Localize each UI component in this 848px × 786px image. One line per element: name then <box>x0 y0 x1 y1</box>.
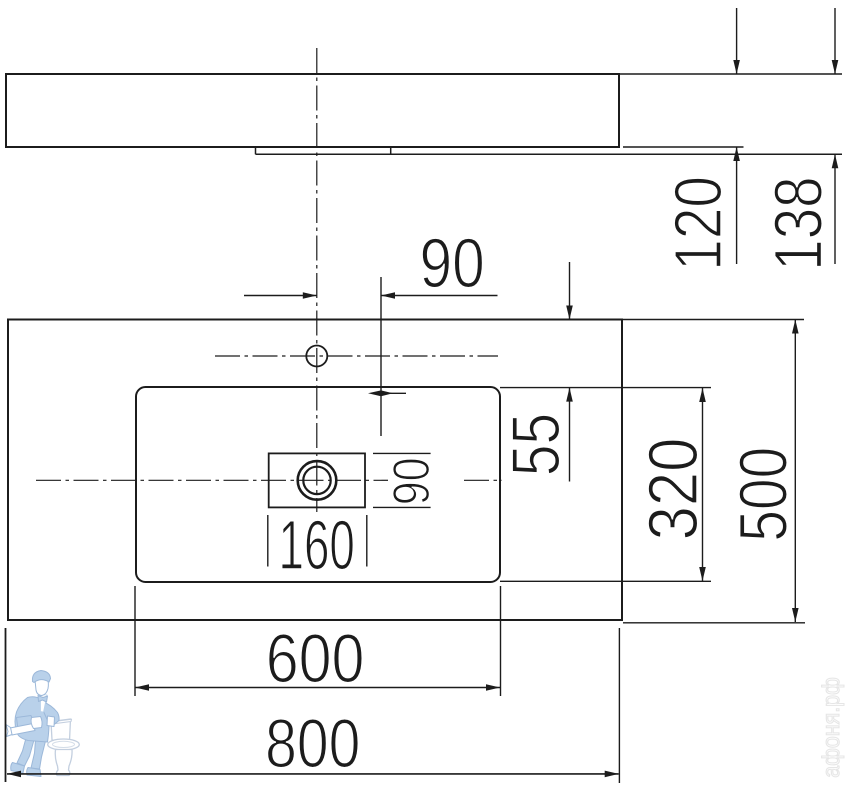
dimension 138 up arrow <box>832 154 839 168</box>
plan top edge extension <box>622 319 804 321</box>
plumber face <box>35 677 48 696</box>
svg-text:120: 120 <box>661 176 736 271</box>
plumber left shoe <box>11 763 25 774</box>
svg-text:800: 800 <box>265 705 360 782</box>
svg-text:90: 90 <box>383 457 441 505</box>
svg-text:афоня.рф: афоня.рф <box>818 677 845 777</box>
basin top extension <box>500 387 711 389</box>
plumber jacket body <box>15 697 49 742</box>
watermark plumber figure <box>6 671 79 777</box>
dimension 120 down arrow <box>733 60 740 74</box>
plumber right shoe <box>27 768 41 777</box>
dimension 800 left extension <box>5 628 7 782</box>
wrench jaw <box>6 725 12 737</box>
dimension 120 up arrow <box>733 147 740 161</box>
dimension 600 line <box>135 687 500 689</box>
faucet hole <box>306 346 327 367</box>
svg-text:138: 138 <box>760 177 836 271</box>
plumber left leg <box>17 738 34 766</box>
drain rect bottom extension <box>373 506 431 508</box>
toilet seat inner <box>53 741 75 747</box>
bow tie <box>38 696 48 703</box>
double arrow mark at basin edge <box>368 390 393 396</box>
plumber left forearm <box>17 716 36 730</box>
lip seam <box>390 147 392 154</box>
toilet tank <box>51 719 71 741</box>
plan view outline <box>8 320 622 621</box>
drain outer circle <box>298 461 337 500</box>
dimension 600 left extension <box>134 586 136 696</box>
side view outline <box>6 74 619 147</box>
dimension 320 line <box>702 388 704 581</box>
dimension 138 upper extension <box>834 8 836 74</box>
wrench <box>10 724 35 736</box>
faucet centerline <box>215 355 498 357</box>
dimension 55 lower segment <box>569 388 571 482</box>
vertical centerline <box>316 48 318 512</box>
dimension 800 line <box>7 773 619 775</box>
svg-text:600: 600 <box>266 620 365 697</box>
dimension 500 line <box>794 320 796 623</box>
dimension 120 upper extension <box>736 8 738 74</box>
dimension 120 lower extension <box>736 147 738 264</box>
plumber right leg <box>31 740 46 769</box>
drain centerline <box>36 479 388 481</box>
svg-text:320: 320 <box>634 438 712 541</box>
svg-text:500: 500 <box>725 447 801 542</box>
dimension 138 down arrow <box>832 60 839 74</box>
drain centerline right piece <box>464 479 502 481</box>
dimension 90 extension line <box>380 277 382 436</box>
lip left step <box>255 147 257 154</box>
dimension 160 right tick <box>366 515 368 567</box>
drain inner circle <box>303 467 330 494</box>
toilet pedestal <box>55 750 72 776</box>
dimension 600 right extension <box>500 586 502 696</box>
hand on tank <box>47 716 55 727</box>
side view lip bottom line <box>256 153 843 155</box>
toilet tank lid line <box>50 719 72 724</box>
dimension 55 upper segment <box>569 262 571 320</box>
side view top edge extension <box>619 73 842 75</box>
svg-text:90: 90 <box>420 224 485 302</box>
plumber right arm <box>43 702 60 726</box>
plan bottom edge extension <box>623 622 805 624</box>
shirt <box>41 695 48 713</box>
side view bottom edge extension <box>623 146 744 148</box>
dimension 800 right extension <box>618 628 620 783</box>
dimension 90 top: right segment with left arrow <box>381 295 498 297</box>
basin bottom extension <box>500 580 711 582</box>
toilet seat outer <box>48 739 80 750</box>
basin rounded rectangle <box>136 387 500 582</box>
drain rectangle <box>269 453 365 507</box>
plumber cap <box>32 671 50 683</box>
svg-text:160: 160 <box>279 506 355 584</box>
drain rect top extension <box>373 452 431 454</box>
svg-text:55: 55 <box>498 413 574 476</box>
dimension 90 top: left segment with right arrow <box>244 295 317 297</box>
hand on wrench <box>31 717 42 729</box>
dimension 138 lower extension <box>834 154 836 264</box>
dimension 160 left tick <box>267 515 269 567</box>
